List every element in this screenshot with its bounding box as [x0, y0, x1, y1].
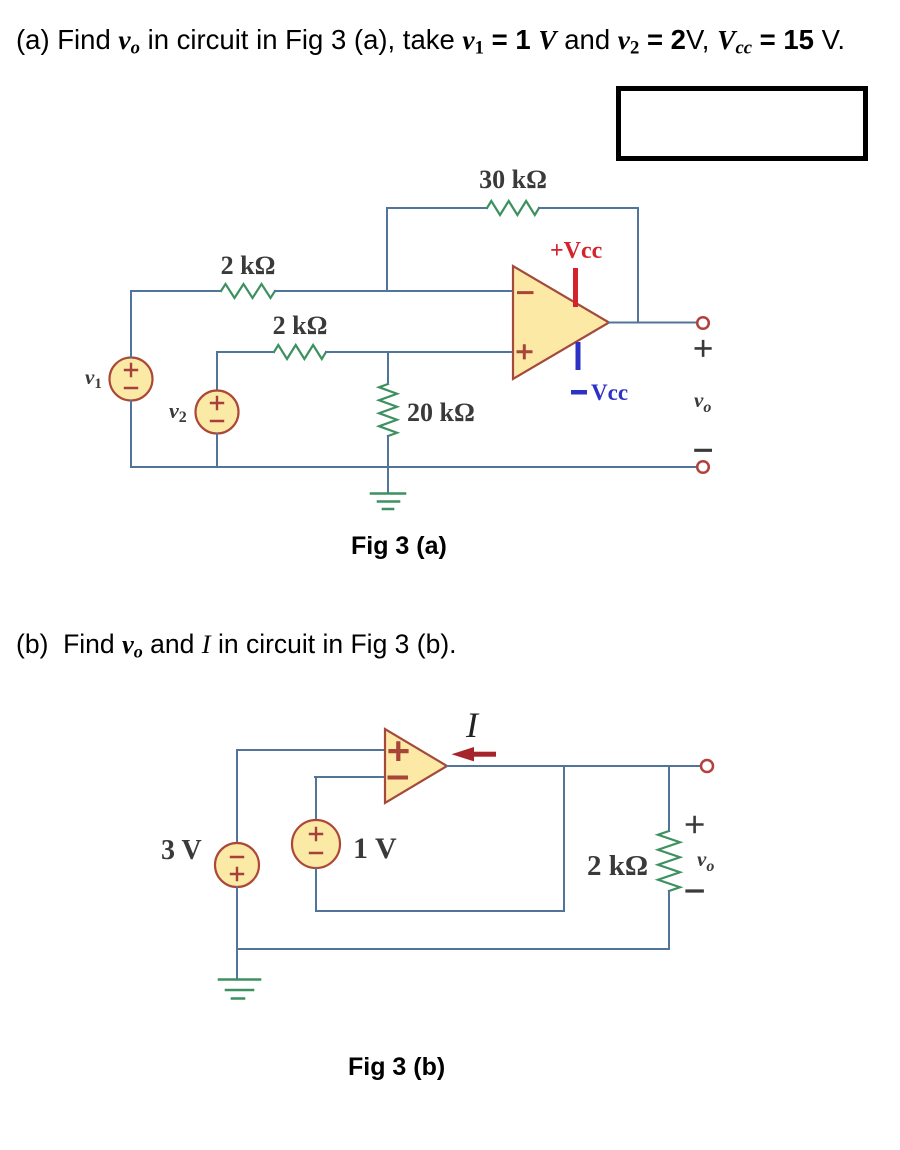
- current arrow I: [452, 747, 497, 761]
- ground circuit (a): [371, 467, 405, 509]
- caption Fig 3 (b): [348, 1053, 445, 1082]
- wire: feedback top-left vertical: [387, 208, 487, 291]
- resistor R4 2k vertical zigzag: [658, 831, 680, 891]
- resistor R_f 30k zigzag: [487, 201, 539, 215]
- -Vcc supply bar: [576, 342, 581, 370]
- svg-text:Vcc: Vcc: [591, 380, 628, 405]
- wire: op-amp output: [609, 322, 697, 324]
- wire: inner feedback bottom (b): [316, 766, 564, 911]
- wire: 2k top lead (b): [668, 766, 670, 831]
- terminal: output top: [697, 317, 709, 329]
- svg-text:1 V: 1 V: [353, 832, 397, 865]
- svg-text:30 kΩ: 30 kΩ: [479, 165, 547, 194]
- wire: 20k top lead from row2 junction: [387, 352, 389, 384]
- label + output (b): [687, 817, 702, 832]
- answer box: [616, 86, 868, 161]
- source 1V circle: [292, 820, 340, 868]
- svg-text:v2: v2: [169, 398, 187, 426]
- svg-text:2 kΩ: 2 kΩ: [221, 251, 276, 280]
- wire: bottom rail (b): [237, 948, 669, 950]
- source 3V circle: [215, 843, 259, 887]
- ground circuit (b): [219, 980, 260, 999]
- wire: row2 right segment to op-amp non-inverting input: [326, 351, 513, 353]
- svg-text:3 V: 3 V: [161, 835, 202, 866]
- resistor R2 2k zigzag: [274, 345, 326, 359]
- wire: v1 bottom lead: [130, 401, 132, 468]
- label + output: [696, 341, 711, 355]
- svg-text:2 kΩ: 2 kΩ: [587, 850, 648, 882]
- caption Fig 3 (a): [351, 532, 447, 561]
- label - output: [696, 449, 711, 452]
- wire: row1 left segment (v1 to R1): [131, 290, 221, 292]
- wire: row1 right segment to op-amp inverting input: [275, 290, 513, 292]
- svg-text:2 kΩ: 2 kΩ: [273, 311, 328, 340]
- resistor R1 2k zigzag: [221, 284, 275, 298]
- wire: 1V bottom lead (b): [315, 868, 317, 911]
- wire: v2 bottom lead: [216, 434, 218, 468]
- wire: op-amp output (b): [447, 765, 701, 767]
- svg-text:v1: v1: [85, 365, 102, 392]
- wire: 2k bottom lead (b): [668, 891, 670, 949]
- problem statement (b): [16, 629, 457, 663]
- svg-text:vo: vo: [694, 388, 711, 416]
- svg-text:+Vcc: +Vcc: [550, 238, 603, 264]
- wire: inverting input (b): [315, 776, 385, 778]
- wire: row2 left vertical from v2: [217, 352, 274, 390]
- wire: left vertical to 3V (b): [236, 750, 238, 843]
- label - output (b): [687, 889, 702, 892]
- resistor R3 20k vertical zigzag: [379, 384, 397, 436]
- wire: vertical to 1V top (b): [315, 777, 317, 820]
- +Vcc supply bar: [573, 268, 578, 307]
- svg-text:20 kΩ: 20 kΩ: [407, 398, 475, 427]
- op-amp U2: [385, 729, 447, 803]
- wire: 20k bottom lead: [387, 436, 389, 467]
- svg-text:vo: vo: [697, 847, 714, 875]
- problem statement (a): [16, 24, 845, 60]
- terminal: output (b): [701, 760, 713, 772]
- wire: v1 top lead: [130, 291, 132, 358]
- wire: feedback top-right segment: [539, 208, 638, 323]
- op-amp U1: [513, 266, 609, 379]
- source v2 circle: [196, 391, 239, 434]
- wire: non-inverting input top (b): [237, 749, 385, 751]
- wire: bottom rail circuit (a): [131, 466, 697, 468]
- source v1 circle: [110, 358, 153, 401]
- terminal: output bottom: [697, 461, 709, 473]
- svg-text:I: I: [465, 705, 480, 745]
- label -Vcc: [571, 380, 628, 405]
- wire: 3V bottom lead down to ground rail: [236, 887, 238, 979]
